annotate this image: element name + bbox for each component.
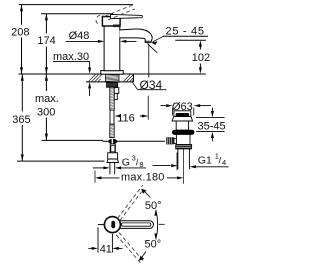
- svg-text:Ø34: Ø34: [140, 78, 163, 92]
- svg-text:365: 365: [12, 114, 30, 126]
- svg-text:102: 102: [192, 52, 210, 64]
- svg-text:41: 41: [100, 243, 112, 255]
- svg-text:Ø63: Ø63: [172, 101, 193, 113]
- svg-text:174: 174: [37, 35, 55, 47]
- svg-text:50°: 50°: [145, 239, 162, 251]
- svg-text:max.180: max.180: [121, 172, 165, 184]
- svg-text:208: 208: [11, 26, 29, 38]
- svg-text:116: 116: [117, 113, 135, 125]
- svg-text:300: 300: [37, 107, 55, 119]
- svg-text:8: 8: [139, 160, 143, 169]
- svg-text:50°: 50°: [145, 200, 162, 212]
- svg-text:G: G: [122, 156, 130, 168]
- svg-text:25 - 45: 25 - 45: [166, 26, 205, 38]
- svg-text:Ø48: Ø48: [69, 30, 90, 42]
- svg-text:35-45: 35-45: [198, 120, 226, 132]
- svg-text:4: 4: [222, 158, 226, 167]
- svg-text:G1: G1: [198, 154, 212, 166]
- svg-text:max.30: max.30: [53, 51, 89, 63]
- svg-text:max.: max.: [35, 93, 59, 105]
